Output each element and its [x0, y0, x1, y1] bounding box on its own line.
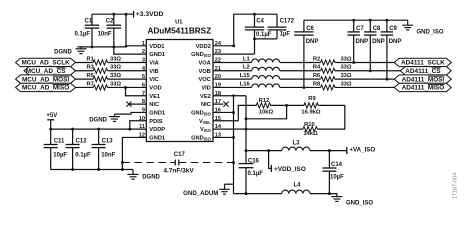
node junction C14 bottom [328, 192, 331, 195]
inductor L3 [282, 147, 310, 151]
wire R9 right corner to R10 [317, 105, 345, 129]
svg-text:C16: C16 [248, 158, 260, 164]
svg-text:16.9kΩ: 16.9kΩ [301, 109, 321, 115]
node junction L3 left [245, 149, 248, 152]
svg-text:AD4111_CS: AD4111_CS [405, 68, 441, 75]
svg-text:PDIS: PDIS [149, 119, 162, 125]
svg-text:GND1: GND1 [149, 52, 165, 58]
node junction C9 rail [385, 19, 388, 22]
node flag AD4111_CS [400, 67, 451, 75]
wire L16 to R8 [280, 86, 321, 88]
wire GND_ADUM stub [225, 183, 234, 185]
svg-text:10µF: 10µF [53, 153, 67, 159]
svg-text:33Ω: 33Ω [110, 81, 121, 87]
node junction VE1 tie [124, 86, 127, 89]
capacitor C11 [50, 129, 52, 144]
node junction C7 rail [352, 19, 355, 22]
svg-text:VIC: VIC [149, 77, 158, 83]
ground GND_ADUM [224, 184, 226, 189]
svg-text:C14: C14 [331, 162, 343, 168]
svg-text:+5V: +5V [46, 113, 57, 119]
svg-text:VSEL: VSEL [199, 119, 211, 125]
wire MCU_AD_MISO to R7 [76, 86, 94, 88]
svg-text:R8: R8 [313, 81, 321, 87]
node junction VDD_ISO drop [267, 149, 270, 152]
node junction C12 bottom [71, 168, 74, 171]
node junction VDD1 drop [125, 13, 128, 16]
svg-text:C9: C9 [389, 26, 397, 32]
resistor R3 [93, 68, 107, 73]
node junction C14 top [328, 149, 331, 152]
svg-text:VDDP: VDDP [149, 127, 165, 133]
svg-text:DNP: DNP [389, 39, 402, 45]
svg-text:GNDISO: GNDISO [191, 110, 212, 116]
svg-text:R4: R4 [313, 65, 321, 71]
svg-text:VOC: VOC [198, 77, 210, 83]
inductor L4 [282, 190, 310, 194]
svg-text:C2: C2 [106, 18, 114, 24]
capacitor C1 [91, 14, 93, 25]
wire +3.3VDD rail [92, 13, 134, 15]
svg-text:10kΩ: 10kΩ [259, 109, 274, 115]
wire R12 to R9 [271, 104, 304, 106]
node junction VE2 row [232, 94, 235, 97]
wire MCU_AD_CS to R3 [76, 70, 94, 72]
resistor R4 [321, 68, 335, 73]
wire U1 to L2 [213, 70, 252, 72]
wire DGND rail below C11-C13 [51, 169, 123, 171]
wire R5 to U1 [108, 78, 147, 80]
wire L1 to R2 [280, 61, 321, 63]
wire MCU_AD_SCLK to R1 [76, 61, 94, 63]
svg-text:NIC: NIC [201, 102, 211, 108]
svg-text:R2: R2 [313, 56, 320, 62]
node junction +5V C11 [49, 128, 52, 131]
svg-text:C11: C11 [54, 138, 65, 144]
no-connect pin 17 NIC stub [213, 103, 223, 105]
svg-text:AD4111_MOSI: AD4111_MOSI [402, 76, 445, 83]
svg-text:AD4111_MISO: AD4111_MISO [402, 85, 445, 92]
ground GND_ISO top [407, 20, 409, 25]
capacitor C17 dashed link [122, 162, 175, 164]
ground GND_ISO bottom [336, 195, 338, 197]
power flag +VA_ISO [346, 147, 348, 154]
node junction C17 right [232, 161, 235, 164]
node junction C7 row [352, 61, 355, 64]
node flag MCU_AD_SCLK [16, 58, 76, 66]
svg-text:GND1: GND1 [149, 110, 165, 116]
node junction C1 bottom [91, 45, 94, 48]
node junction PDIS tie [128, 128, 131, 131]
svg-text:L1: L1 [243, 56, 251, 62]
svg-text:GNDISO: GNDISO [191, 135, 212, 141]
svg-text:+3.3VDD: +3.3VDD [136, 11, 164, 18]
svg-text:VOA: VOA [198, 61, 210, 67]
wire L15 to R6 [280, 78, 321, 80]
svg-text:C172: C172 [280, 19, 295, 25]
svg-text:GND_ADUM: GND_ADUM [183, 190, 218, 197]
node junction C4 bottom [253, 37, 256, 40]
wire V_ISO vertical V2 [245, 96, 247, 164]
capacitor C7 DNP [353, 20, 355, 32]
svg-text:33Ω: 33Ω [110, 56, 121, 62]
resistor R1 [93, 60, 107, 65]
svg-text:C8: C8 [373, 26, 381, 32]
wire L2 to R4 [280, 70, 321, 72]
wire V_ISO pin 14 row [213, 128, 303, 130]
node flag AD4111_MOSI [394, 75, 451, 83]
svg-text:DGND: DGND [54, 49, 72, 55]
wire R6 to flag AD4111_MOSI [335, 78, 394, 80]
svg-text:L3: L3 [292, 140, 300, 146]
wire U1 to L15 [213, 78, 252, 80]
wire R1 to U1 [108, 61, 147, 63]
node junction C4 top [253, 13, 256, 16]
resistor R2 [321, 60, 335, 65]
svg-text:R3: R3 [86, 65, 94, 71]
capacitor C6 DNP [303, 20, 305, 32]
wire V_ISO to L3 [246, 150, 282, 152]
node junction C8 row [369, 69, 372, 72]
inductor L1 [252, 59, 280, 63]
svg-text:33Ω: 33Ω [340, 73, 351, 79]
svg-text:L4: L4 [293, 183, 301, 189]
node flag MCU_AD_MISO [16, 83, 76, 91]
capacitor C13 [98, 129, 100, 144]
svg-text:AD4111_SCLK: AD4111_SCLK [401, 60, 445, 67]
svg-text:C4: C4 [256, 18, 264, 24]
svg-text:10nF: 10nF [98, 31, 112, 37]
svg-text:17167-004: 17167-004 [453, 173, 459, 200]
node junction C9 row [385, 78, 388, 81]
svg-text:L15: L15 [240, 73, 251, 79]
svg-text:0.1µF: 0.1µF [75, 31, 91, 37]
power flag +VDD_ISO [269, 151, 272, 169]
node flag MCU_AD_MOSI [16, 75, 76, 83]
wire GND_ISO bottom rail left [234, 193, 282, 195]
svg-text:C1: C1 [85, 18, 93, 24]
wire GND1 pin 9 [115, 112, 147, 114]
node junction divider link [245, 117, 248, 120]
svg-text:DNP: DNP [306, 39, 319, 45]
svg-text:GND_ISO: GND_ISO [346, 200, 373, 206]
node junction C12 top [71, 128, 74, 131]
wire pin 16 GND_ISO [213, 111, 234, 113]
svg-text:NIC: NIC [149, 102, 159, 108]
resistor R12 [256, 103, 270, 108]
capacitor C4 [254, 14, 256, 27]
wire U1 to L1 [213, 61, 252, 63]
svg-text:U1: U1 [175, 20, 183, 26]
resistor R7 [93, 85, 107, 90]
svg-text:R5: R5 [86, 73, 94, 79]
svg-text:VISO: VISO [200, 127, 212, 133]
node flag AD4111_SCLK [394, 58, 451, 66]
node junction pin 16 GND_ISO [232, 111, 235, 114]
wire pin 13 GND_ISO [213, 136, 234, 138]
resistor R6 [321, 77, 335, 82]
svg-text:0.1µF: 0.1µF [256, 32, 272, 38]
resistor R9 [304, 103, 318, 108]
node flag AD4111_MISO [394, 83, 451, 91]
wire pin 15 V_SEL [213, 120, 238, 122]
node junction pin 14 V_ISO [245, 128, 248, 131]
wire GND_ADUM vertical V1 [233, 96, 235, 194]
node junction pin1 corner blob [125, 45, 128, 48]
svg-text:VIA: VIA [149, 61, 158, 67]
wire +5V rail to VDDP pin 11 [51, 128, 147, 130]
svg-text:10nF: 10nF [101, 153, 115, 159]
resistor R5 [93, 77, 107, 82]
wire R7 to U1 [108, 86, 147, 88]
svg-text:33Ω: 33Ω [340, 56, 351, 62]
node flag MCU_AD_CS [24, 67, 76, 75]
node junction C6 row [302, 86, 305, 89]
svg-text:VDD2: VDD2 [196, 44, 211, 50]
capacitor C16 [239, 163, 254, 165]
capacitor C9 DNP [386, 20, 388, 32]
svg-text:33Ω: 33Ω [340, 65, 351, 71]
svg-text:MCU_AD_MISO: MCU_AD_MISO [22, 85, 69, 92]
op-amp U1 ADuM5411BRSZ body [146, 40, 213, 142]
no-connect pin 8 NIC stub [129, 103, 146, 105]
svg-text:R1: R1 [86, 56, 94, 62]
svg-text:0.1µF: 0.1µF [75, 153, 91, 159]
wire VE2 pin 18 [213, 95, 246, 97]
svg-text:C13: C13 [102, 138, 114, 144]
wire R4 to flag AD4111_CS [335, 70, 400, 72]
svg-text:DGND: DGND [142, 174, 160, 180]
node junction C13 bottom [97, 168, 100, 171]
svg-text:VOB: VOB [198, 69, 210, 75]
svg-text:DGND: DGND [89, 117, 107, 123]
svg-text:L2: L2 [243, 65, 250, 71]
no-connect X pin 8 [126, 102, 131, 107]
svg-text:R7: R7 [86, 81, 93, 87]
inductor L15 [252, 76, 280, 80]
node junction VDD2 corner [232, 44, 235, 47]
no-connect X pin 17 [223, 102, 228, 107]
resistor R8 [321, 85, 335, 90]
svg-text:+VDD_ISO: +VDD_ISO [274, 166, 306, 173]
svg-text:VIB: VIB [149, 69, 158, 75]
svg-text:C17: C17 [174, 152, 186, 158]
power flag +3.3VDD [133, 11, 135, 18]
capacitor C172 [276, 14, 278, 27]
wire R3 to U1 [108, 70, 147, 72]
capacitor C17 plates [174, 160, 176, 166]
svg-text:+VA_ISO: +VA_ISO [349, 146, 375, 153]
svg-text:VID: VID [201, 86, 210, 92]
node junction C2 top [112, 13, 115, 16]
svg-text:4.7nF/3kV: 4.7nF/3kV [163, 168, 194, 175]
wire L4 to GND_ISO [310, 194, 337, 197]
node junction pin 13 GND_ISO [232, 136, 235, 139]
svg-text:ADuM5411BRSZ: ADuM5411BRSZ [147, 26, 211, 35]
wire GND_ISO DNP rail [304, 19, 408, 21]
svg-text:DNP: DNP [356, 39, 369, 45]
wire +3.3VDD to pin 1 VDD1 [126, 14, 146, 46]
svg-text:GND_ISO: GND_ISO [417, 30, 444, 36]
resistor R10 [303, 127, 317, 132]
capacitor C2 [113, 14, 115, 25]
node junction C17 left [121, 161, 124, 164]
svg-text:VDD1: VDD1 [149, 44, 164, 50]
svg-text:R9: R9 [308, 96, 316, 102]
svg-text:VOD: VOD [149, 86, 161, 92]
wire DGND stub to ground [122, 169, 133, 171]
ground DGND bottom [132, 170, 134, 175]
svg-text:GNDISO: GNDISO [191, 52, 212, 58]
svg-text:MCU_AD_MOSI: MCU_AD_MOSI [22, 76, 69, 83]
svg-text:C12: C12 [76, 138, 88, 144]
svg-text:33Ω: 33Ω [110, 65, 121, 71]
wire divider tap down-link [246, 105, 287, 118]
node junction DGND rail [121, 168, 124, 171]
wire GND_ISO pin 23 [213, 53, 255, 55]
svg-text:14kΩ: 14kΩ [303, 131, 318, 137]
node junction C2 bottom [112, 45, 115, 48]
wire GND1 pin 2 [114, 47, 147, 54]
wire L3 to +VA_ISO [310, 150, 347, 152]
svg-text:R12: R12 [259, 98, 270, 104]
wire R2 to flag AD4111_SCLK [335, 61, 394, 63]
svg-text:C7: C7 [356, 26, 364, 32]
wire VE1 pin 7 tie to VOD net [126, 87, 147, 95]
wire DGND net top-left [78, 46, 127, 48]
svg-text:33Ω: 33Ω [340, 81, 351, 87]
wire R8 to flag AD4111_MISO [335, 86, 394, 88]
svg-text:L16: L16 [240, 81, 251, 87]
svg-text:0.1µF: 0.1µF [248, 171, 264, 177]
svg-text:10µF: 10µF [330, 175, 344, 181]
svg-text:VE1: VE1 [149, 94, 160, 100]
wire V_SEL riser to R12 [238, 105, 256, 120]
wire C4 C172 bottoms [255, 38, 278, 40]
capacitor C8 DNP [369, 20, 371, 32]
svg-text:R6: R6 [313, 73, 321, 79]
svg-text:VE2: VE2 [200, 94, 211, 100]
wire GND1 pin 12 down [122, 137, 146, 169]
wire VDD2 pin 24 riser [213, 14, 277, 46]
capacitor C12 [72, 129, 74, 144]
wire MCU_AD_MOSI to R5 [76, 78, 94, 80]
node junction C8 rail [369, 19, 372, 22]
svg-text:MCU_AD_SCLK: MCU_AD_SCLK [21, 60, 70, 67]
ground DGND mid [114, 114, 116, 117]
svg-text:C6: C6 [306, 26, 314, 32]
svg-text:1µF: 1µF [280, 32, 291, 38]
capacitor C14 [328, 151, 330, 168]
node junction divider tap [285, 104, 288, 107]
wire U1 to L16 [213, 86, 252, 88]
inductor L2 [252, 67, 280, 71]
ground DGND top-left [80, 47, 82, 49]
wire PDIS pin 10 tie to VDDP [130, 121, 147, 129]
svg-text:33Ω: 33Ω [110, 73, 121, 79]
node junction C13 top [97, 128, 100, 131]
svg-text:GND1: GND1 [149, 135, 165, 141]
node junction C16 bottom [245, 192, 248, 195]
svg-text:MCU_AD_CS: MCU_AD_CS [26, 68, 67, 75]
svg-text:DNP: DNP [372, 39, 385, 45]
svg-text:R10: R10 [304, 122, 315, 128]
inductor L16 [252, 84, 280, 88]
